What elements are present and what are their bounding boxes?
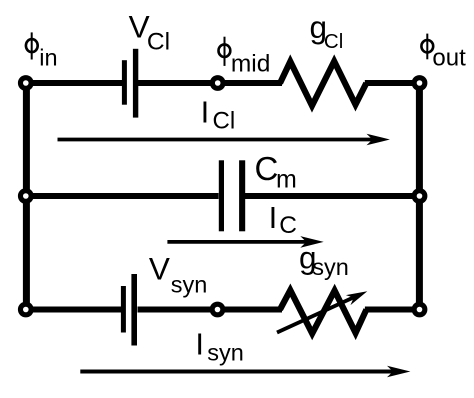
svg-text:I: I bbox=[269, 200, 278, 235]
svg-text:out: out bbox=[432, 44, 466, 71]
wire left rail (phi_in to bottom) bbox=[23, 83, 30, 310]
svg-text:syn: syn bbox=[312, 254, 349, 280]
current arrow I_Cl shaft bbox=[58, 138, 375, 142]
svg-text:syn: syn bbox=[171, 271, 208, 297]
wire middle branch: capacitor C_m to right node bbox=[240, 193, 420, 199]
current arrow I_C head bbox=[300, 236, 323, 248]
capacitor C_m left plate bbox=[219, 160, 224, 231]
svg-text:I: I bbox=[195, 327, 204, 362]
current arrow I_syn shaft bbox=[80, 370, 395, 374]
svg-text:syn: syn bbox=[207, 339, 244, 365]
label phi_in symbol bbox=[26, 32, 38, 59]
wire top branch: resistor g_Cl to node phi_out bbox=[365, 80, 420, 86]
node bottom-left bbox=[18, 302, 34, 318]
svg-text:C: C bbox=[255, 150, 279, 187]
wire right rail (phi_out to bottom) bbox=[416, 83, 423, 310]
current arrow I_syn head bbox=[387, 366, 410, 378]
wire top branch: node phi_in to battery V_Cl bbox=[26, 80, 122, 86]
node phi_mid bbox=[210, 75, 226, 91]
battery V_syn short plate bbox=[121, 286, 126, 333]
node phi_in bbox=[18, 75, 34, 91]
svg-text:Cl: Cl bbox=[324, 30, 343, 53]
svg-text:Cl: Cl bbox=[147, 28, 170, 55]
wire bottom branch: resistor g_syn to right node bbox=[365, 307, 420, 313]
resistor g_Cl zigzag bbox=[280, 61, 366, 105]
battery V_Cl long plate bbox=[133, 49, 138, 118]
variable-resistor arrow shaft through g_syn bbox=[277, 297, 356, 333]
node middle-left bbox=[18, 188, 34, 204]
svg-text:V: V bbox=[149, 251, 170, 287]
current arrow I_C shaft bbox=[167, 240, 308, 244]
wire bottom branch: node left to battery V_syn bbox=[26, 307, 121, 313]
svg-text:Cl: Cl bbox=[213, 107, 236, 134]
current arrow I_Cl head bbox=[367, 134, 390, 146]
wire middle branch: node left to capacitor C_m bbox=[26, 193, 219, 199]
svg-text:m: m bbox=[276, 165, 297, 193]
wire top branch: battery V_Cl to resistor g_Cl (through node phi_mid) bbox=[138, 80, 282, 86]
node middle-right bbox=[412, 188, 428, 204]
label phi_mid symbol bbox=[219, 37, 231, 66]
resistor g_syn zigzag (variable) bbox=[280, 290, 366, 333]
svg-text:in: in bbox=[39, 45, 57, 71]
wire bottom branch: battery V_syn to resistor g_syn (through node) bbox=[138, 307, 283, 313]
node bottom-mid bbox=[210, 302, 226, 318]
node bottom-right bbox=[412, 302, 428, 318]
node phi_out bbox=[412, 75, 428, 91]
battery V_Cl short plate bbox=[122, 60, 127, 104]
capacitor C_m right plate bbox=[239, 160, 245, 231]
variable-resistor arrowhead bbox=[346, 291, 367, 305]
svg-text:C: C bbox=[279, 212, 297, 239]
svg-text:mid: mid bbox=[231, 50, 270, 77]
battery V_syn long plate bbox=[131, 274, 137, 346]
svg-text:I: I bbox=[201, 94, 210, 129]
label phi_out symbol bbox=[421, 34, 433, 60]
